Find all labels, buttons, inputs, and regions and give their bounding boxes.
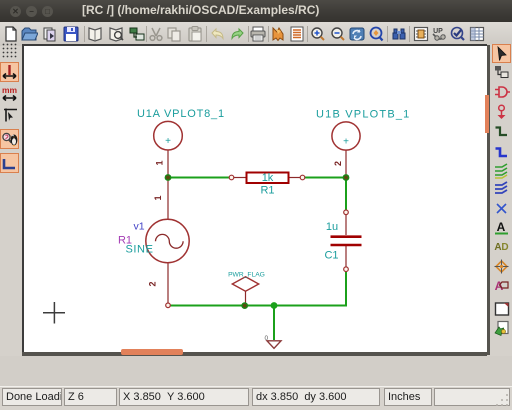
toolbar icon: BOM table — [468, 25, 486, 43]
right icon: hierarchical sheet — [493, 300, 511, 318]
cursor crosshair — [43, 302, 65, 324]
svg-text:1: 1 — [153, 195, 163, 200]
wire right vertical lower — [345, 269, 347, 307]
pin end circle C1 top — [344, 210, 349, 215]
svg-text:C1: C1 — [324, 250, 338, 262]
toolbar icon: zoom to selection — [367, 25, 385, 43]
junction node ground — [271, 302, 278, 309]
PWR_FLAG diamond — [232, 277, 258, 291]
svg-text:+: + — [165, 136, 171, 147]
toolbar icon: open folder — [20, 25, 38, 43]
toolbar icon: hierarchy blocks — [128, 25, 146, 43]
toolbar icon: zoom in — [309, 25, 327, 43]
svg-text:SINE: SINE — [125, 244, 153, 256]
pin end circle R1 right — [300, 175, 305, 180]
toolbar icon: undo (pale) — [208, 25, 226, 43]
svg-text:1: 1 — [155, 160, 165, 165]
right icon: cursor (active) — [492, 44, 511, 63]
svg-text:1u: 1u — [326, 221, 338, 233]
right icon: place wire — [493, 123, 511, 141]
toolbar icon: zoom out — [329, 25, 347, 43]
voltage source v1 pin 2 line — [167, 263, 169, 305]
svg-text:2: 2 — [333, 161, 343, 166]
voltage source v1 circle — [146, 219, 189, 262]
voltage probe U1B pin 2 line — [345, 150, 347, 178]
svg-text:+: + — [343, 137, 349, 148]
toolbar icon: print — [249, 25, 267, 43]
toolbar icon: redraw view — [348, 25, 366, 43]
svg-text:U1A VPLOT8_1: U1A VPLOT8_1 — [137, 108, 225, 120]
toolbar icon: annotate flame — [269, 25, 287, 43]
component U1B voltage probe circle — [332, 122, 360, 150]
left icon: units inch (active) — [0, 62, 19, 82]
capacitor C1 top plate — [331, 235, 362, 238]
capacitor C1 top pin line — [345, 212, 347, 235]
v1 sine wave — [156, 234, 184, 248]
right icon: junction diamond — [493, 258, 511, 276]
right icon: navigate hierarchy — [493, 63, 511, 81]
pin end circle C1 bottom — [344, 267, 349, 272]
ground symbol 0 — [267, 341, 281, 349]
right icon: net label A — [493, 219, 511, 237]
window title bar — [0, 0, 512, 22]
PWR_FLAG stem — [245, 291, 247, 306]
toolbar icon: cut scissors (disabled) — [147, 25, 165, 43]
right icon: wire to bus entry — [493, 162, 511, 180]
toolbar icon: schematic sheet nav — [86, 25, 104, 43]
voltage probe U1A pin 1 line — [167, 150, 169, 178]
toolbar icon: copy (disabled) — [165, 25, 183, 43]
left icon: hidden pins (active) — [0, 129, 19, 149]
toolbar icon: sheet with magnifier — [107, 25, 125, 43]
left icon: cursor shape — [1, 106, 19, 124]
left icon: HV wires (active) — [0, 153, 19, 173]
right icon: bus to bus entry — [493, 180, 511, 198]
toolbar icon: back annotate — [430, 25, 448, 43]
voltage source v1 pin 1 line — [167, 178, 169, 220]
top toolbar — [0, 22, 512, 46]
status bar — [0, 386, 512, 410]
wire ground stem — [273, 306, 275, 341]
right icon: place component gate — [493, 83, 511, 101]
junction node pwr-flag — [241, 302, 248, 309]
wire right vertical upper — [345, 178, 347, 214]
toolbar icon: save project pages — [41, 25, 59, 43]
wire top horizontal left segment — [168, 177, 233, 179]
left icon: grid dots — [1, 42, 19, 60]
right icon: global label AD — [493, 238, 511, 256]
wire top horizontal right segment — [301, 177, 347, 179]
capacitor C1 bottom pin line — [345, 246, 347, 269]
svg-text:U1B VPLOTB_1: U1B VPLOTB_1 — [316, 109, 411, 121]
component U1A voltage probe circle — [154, 121, 183, 150]
svg-text:1k: 1k — [262, 172, 274, 184]
toolbar icon: new sheet — [2, 25, 20, 43]
right icon: no connect X — [493, 200, 511, 218]
resistor R1 body box — [247, 173, 289, 184]
junction node top-left — [165, 174, 172, 181]
right icon: import sheet pin — [493, 319, 511, 337]
toolbar icon: paste (disabled) — [186, 25, 204, 43]
right icon: place power port — [493, 103, 511, 121]
right toolbar — [490, 44, 512, 385]
resize grip — [494, 393, 510, 408]
svg-text:0: 0 — [265, 335, 269, 342]
pin end circle R1 left — [229, 175, 234, 180]
pin end circle v1 bottom — [166, 303, 171, 308]
left toolbar — [0, 46, 22, 385]
resistor R1 right pin stub — [289, 177, 304, 179]
svg-text:PWR_FLAG: PWR_FLAG — [228, 271, 265, 278]
toolbar icon: netlist — [412, 25, 430, 43]
junction node top-right — [343, 174, 350, 181]
right icon: hierarchical label — [493, 277, 511, 295]
capacitor C1 bottom plate — [331, 244, 362, 247]
resistor R1 left pin stub — [230, 177, 246, 179]
right icon: place bus — [493, 144, 511, 162]
toolbar icon: redo (green) — [229, 25, 247, 43]
canvas — [22, 44, 487, 352]
toolbar icon: ERC check — [449, 25, 467, 43]
svg-text:R1: R1 — [260, 185, 274, 197]
toolbar icon: ERC list — [288, 25, 306, 43]
svg-text:2: 2 — [148, 281, 158, 286]
toolbar icon: save floppy — [62, 25, 80, 43]
wire bottom horizontal — [167, 305, 347, 307]
svg-text:v1: v1 — [133, 221, 144, 233]
toolbar icon: find binoculars — [390, 25, 408, 43]
left icon: units mm — [1, 85, 19, 103]
